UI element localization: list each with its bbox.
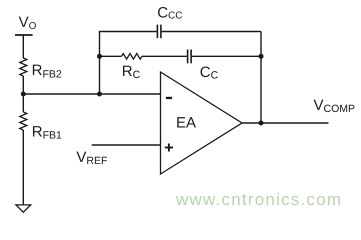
wire middle branch right segment xyxy=(192,55,261,57)
node junction middle branch left xyxy=(97,54,102,59)
capacitor CCC xyxy=(157,4,182,38)
svg-text:CC: CC xyxy=(200,64,219,82)
wire VREF to op-amp noninverting input xyxy=(92,144,161,146)
pin inverting input minus xyxy=(166,97,172,99)
svg-text:RFB2: RFB2 xyxy=(32,62,62,80)
svg-text:EA: EA xyxy=(176,115,196,132)
op-amp EA xyxy=(161,72,243,174)
ground xyxy=(16,205,31,212)
node junction output feedback xyxy=(259,121,264,126)
svg-text:RFB1: RFB1 xyxy=(32,124,62,142)
resistor RC xyxy=(122,54,142,82)
wire right vertical of compensation network xyxy=(260,32,262,124)
wire op-amp output xyxy=(242,122,329,124)
node junction at RFB divider xyxy=(21,92,26,97)
wire top branch right of CCC xyxy=(162,31,261,33)
wire feedback node to op-amp inverting input xyxy=(23,93,160,95)
wire RFB2 to RFB1 xyxy=(22,76,24,112)
node junction middle branch right xyxy=(259,54,264,59)
svg-text:VO: VO xyxy=(19,14,37,32)
capacitor CC xyxy=(188,50,219,82)
pin noninverting input plus xyxy=(165,144,173,152)
wire middle branch between RC and CC xyxy=(142,55,187,57)
wire VO to RFB2 xyxy=(22,35,24,58)
svg-text:VREF: VREF xyxy=(76,149,107,167)
wire RFB1 to ground xyxy=(22,130,24,204)
svg-text:RC: RC xyxy=(122,63,141,81)
wire left vertical of compensation network xyxy=(99,32,101,95)
wire middle branch left segment xyxy=(100,55,122,57)
node VO terminal xyxy=(15,14,37,35)
resistor RFB2 xyxy=(20,58,62,80)
svg-text:CCC: CCC xyxy=(157,4,182,21)
svg-text:VCOMP: VCOMP xyxy=(314,97,356,115)
wire top branch left of CCC xyxy=(99,31,157,33)
node junction feedback left xyxy=(97,92,102,97)
resistor RFB1 xyxy=(20,112,62,142)
svg-text:www.cntronics.com: www.cntronics.com xyxy=(175,190,341,209)
